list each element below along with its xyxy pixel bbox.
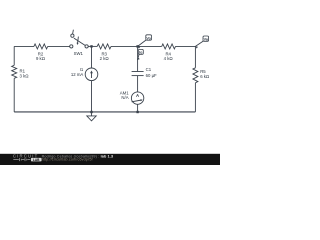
svg-text:12 mA: 12 mA [71,72,84,77]
svg-text:3 kΩ: 3 kΩ [20,73,29,78]
svg-text:6 kΩ: 6 kΩ [200,74,209,79]
svg-text:http://circuitlab.com/c6vdpr5f: http://circuitlab.com/c6vdpr5f [42,158,94,162]
svg-text:60 µF: 60 µF [146,73,157,78]
svg-text:Vo: Vo [146,36,151,40]
svg-text:2 kΩ: 2 kΩ [100,56,109,61]
svg-text:4 kΩ: 4 kΩ [164,56,173,61]
svg-text:C1: C1 [146,67,152,72]
svg-text:LAB: LAB [33,158,40,162]
svg-text:N/A: N/A [121,95,128,100]
svg-text:SW1: SW1 [74,51,84,56]
svg-text:9 kΩ: 9 kΩ [36,56,45,61]
svg-text:A: A [136,93,139,98]
